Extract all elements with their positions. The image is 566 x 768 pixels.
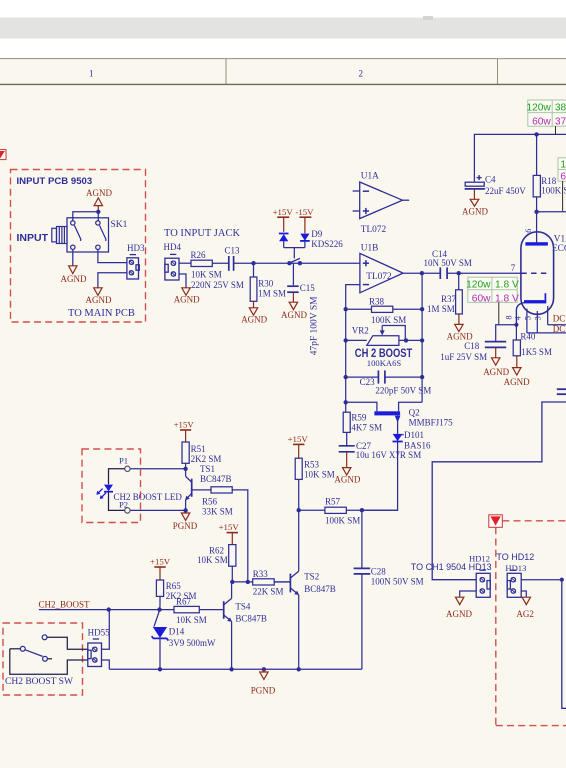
svg-text:TO MAIN PCB: TO MAIN PCB xyxy=(68,308,135,319)
svg-text:10K SM: 10K SM xyxy=(176,615,207,625)
potentiometer VR2 xyxy=(346,325,422,345)
power +15V (for D9) xyxy=(273,207,294,232)
wire feedback right vertical xyxy=(421,273,423,402)
node R65/D14 tap xyxy=(157,607,161,611)
AGND (below C15) xyxy=(281,302,307,320)
resistor R37 xyxy=(427,273,462,324)
svg-text:R59: R59 xyxy=(351,413,367,423)
power +15V (R51) xyxy=(174,420,195,442)
svg-text:D101: D101 xyxy=(404,430,424,440)
AGND (below C27) xyxy=(334,468,360,485)
jack barrel of SK1 xyxy=(52,227,67,244)
svg-text:BC847B: BC847B xyxy=(235,614,267,624)
switch CH2 BOOST SW xyxy=(10,635,88,674)
svg-text:1M SM: 1M SM xyxy=(258,289,286,299)
svg-text:AGND: AGND xyxy=(281,310,307,320)
power +15V (R62) xyxy=(219,522,240,544)
svg-text:+15V: +15V xyxy=(174,420,195,430)
wire HD55 pin1 to CH2_BOOST xyxy=(102,610,110,650)
jack socket SK1 xyxy=(67,218,109,252)
wire SK1 to HD3 xyxy=(98,250,127,263)
svg-text:R67: R67 xyxy=(176,597,192,607)
node grid/R37 xyxy=(457,271,461,275)
power -15V (for D9) xyxy=(295,207,314,234)
svg-text:U1B: U1B xyxy=(361,243,379,253)
measurement table (tube grid voltages) xyxy=(466,277,519,324)
svg-text:VR2: VR2 xyxy=(352,325,369,335)
wire HD13 pin2 to AG2 xyxy=(521,591,526,597)
node cathode junction xyxy=(514,323,518,327)
svg-text:BC847B: BC847B xyxy=(304,584,336,594)
wire node to P2 xyxy=(130,509,186,511)
wire bottom ground rail xyxy=(109,668,362,670)
node TS4 emitter xyxy=(229,667,233,671)
svg-text:+15V: +15V xyxy=(288,434,309,444)
pin P2 xyxy=(119,499,130,513)
svg-text:C13: C13 xyxy=(225,245,241,255)
wire output to HD12 xyxy=(432,402,566,580)
capacitor C14 xyxy=(424,249,472,279)
capacitor C15 xyxy=(287,263,315,302)
wire D101 to R57 right xyxy=(362,442,398,511)
jack switch contact on input wire xyxy=(289,258,300,263)
svg-text:AGND: AGND xyxy=(504,377,530,387)
svg-text:INPUT PCB 9503: INPUT PCB 9503 xyxy=(17,176,93,187)
op-amp U1A xyxy=(353,172,410,236)
svg-text:10K SM: 10K SM xyxy=(304,470,335,480)
svg-text:HD3: HD3 xyxy=(127,243,145,253)
svg-text:100K SM: 100K SM xyxy=(325,516,360,526)
svg-text:60w: 60w xyxy=(472,293,491,304)
svg-text:12: 12 xyxy=(560,160,566,171)
svg-text:R37: R37 xyxy=(441,294,457,304)
svg-text:PGND: PGND xyxy=(173,521,198,531)
svg-text:10N 50V SM: 10N 50V SM xyxy=(424,258,472,268)
svg-text:6: 6 xyxy=(560,171,566,182)
capacitor C28 xyxy=(354,510,424,669)
capacitor C13 xyxy=(225,245,241,270)
svg-text:BC847B: BC847B xyxy=(200,474,232,484)
node R38 left xyxy=(344,307,348,311)
svg-text:8: 8 xyxy=(505,315,514,319)
svg-text:TS1: TS1 xyxy=(200,464,215,474)
resistor R57 xyxy=(299,496,398,525)
connector HD55 xyxy=(88,628,110,667)
power +15V (R53) xyxy=(288,434,309,458)
wire U1B output xyxy=(403,272,440,274)
resistor R30 xyxy=(250,263,286,307)
wire R18 node to right edge xyxy=(537,211,566,213)
svg-text:22K SM: 22K SM xyxy=(253,587,284,597)
node R56 bottom xyxy=(246,580,250,584)
node switch right xyxy=(298,261,302,265)
wire HD12 pin2 to AGND xyxy=(460,591,477,597)
svg-text:4K7 SM: 4K7 SM xyxy=(351,423,382,433)
svg-text:+15V: +15V xyxy=(273,207,294,217)
svg-text:100K SM: 100K SM xyxy=(371,315,406,325)
measurement table (top right, B+ voltages) xyxy=(526,100,566,134)
svg-text:C4: C4 xyxy=(485,175,496,185)
svg-text:120w: 120w xyxy=(526,103,551,114)
measurement table (right edge, R18 node) xyxy=(558,158,566,183)
node R38 right xyxy=(420,307,424,311)
red marker flag top-left xyxy=(0,150,6,160)
wire pin3 to right edge xyxy=(548,306,566,325)
svg-text:R33: R33 xyxy=(253,569,269,579)
svg-text:R38: R38 xyxy=(369,296,385,306)
svg-text:TO INPUT JACK: TO INPUT JACK xyxy=(164,228,240,239)
svg-text:C28: C28 xyxy=(371,566,387,576)
svg-text:TS2: TS2 xyxy=(304,572,319,582)
node R62/R33/TS4 xyxy=(230,580,234,584)
node C28 top xyxy=(360,508,364,512)
wire D9 to signal node xyxy=(284,241,305,259)
diode D101 BAS16 xyxy=(393,430,432,451)
svg-text:CH2 BOOST SW: CH2 BOOST SW xyxy=(5,677,73,687)
svg-text:HD55: HD55 xyxy=(88,628,110,638)
connector HD3 xyxy=(127,243,145,279)
connector HD12 xyxy=(476,570,490,597)
node switch left xyxy=(287,261,291,265)
svg-text:10K SM: 10K SM xyxy=(197,555,228,565)
PGND (bottom rail) xyxy=(251,669,276,695)
svg-text:TL072: TL072 xyxy=(366,272,392,282)
op-amp U1B xyxy=(360,243,403,292)
dashed box CH2 BOOST LED xyxy=(82,449,141,523)
capacitor C27 xyxy=(339,441,422,467)
LED D (CH2 BOOST LED) xyxy=(96,469,124,511)
faint toolbar mark xyxy=(423,16,433,20)
resistor R62 xyxy=(197,545,236,582)
dashed box bottom right xyxy=(496,521,566,726)
svg-text:AGND: AGND xyxy=(86,295,112,305)
connector HD4 xyxy=(164,242,182,280)
connector HD13 xyxy=(507,570,521,597)
svg-text:U1A: U1A xyxy=(361,172,379,182)
wire C13 to U1B input xyxy=(234,262,360,264)
svg-text:2: 2 xyxy=(359,69,364,79)
transistor TS2 BC847B xyxy=(274,510,335,669)
dashed box CH2 BOOST SW xyxy=(3,623,83,695)
svg-text:AGND: AGND xyxy=(446,609,472,619)
pin P1 xyxy=(119,456,130,472)
svg-text:AGND: AGND xyxy=(174,294,200,304)
node R18 bottom xyxy=(534,210,538,214)
svg-text:R40: R40 xyxy=(520,332,536,342)
svg-text:AGND: AGND xyxy=(61,274,87,284)
svg-text:1uF 25V SM: 1uF 25V SM xyxy=(440,352,487,362)
wire node to P1 xyxy=(130,468,186,470)
svg-text:INPUT: INPUT xyxy=(17,232,49,244)
AGND (below SK1 left) xyxy=(61,266,87,284)
svg-text:1: 1 xyxy=(89,69,94,79)
svg-text:1K5 SM: 1K5 SM xyxy=(521,347,552,357)
diode D9 KDS226 (dual) xyxy=(279,229,343,249)
tube pin numbers 8 4 5 3 xyxy=(505,315,543,320)
annotation tick from table to node xyxy=(562,181,564,211)
svg-text:R65: R65 xyxy=(166,581,182,591)
svg-text:47pF 100V SM: 47pF 100V SM xyxy=(309,296,319,355)
svg-text:22uF 450V: 22uF 450V xyxy=(485,186,526,196)
resistor R59 xyxy=(343,402,382,446)
zener diode D14 xyxy=(152,611,216,670)
svg-text:100N 50V SM: 100N 50V SM xyxy=(371,577,424,587)
svg-text:R57: R57 xyxy=(325,496,341,506)
svg-text:ECC8: ECC8 xyxy=(552,244,566,254)
PGND (TS1 emitter) xyxy=(173,513,198,531)
svg-text:R56: R56 xyxy=(202,497,218,507)
resistor R56 xyxy=(202,487,248,582)
AGND AG2 (below HD13) xyxy=(516,597,534,619)
svg-text:1.8 V: 1.8 V xyxy=(495,280,519,291)
svg-text:7: 7 xyxy=(511,263,516,273)
svg-text:D14: D14 xyxy=(169,627,185,637)
resistor R26 xyxy=(191,250,222,280)
svg-text:6: 6 xyxy=(524,229,533,233)
node junction above SK1 xyxy=(96,210,100,214)
node C23 left xyxy=(344,375,348,379)
svg-text:60w: 60w xyxy=(532,116,551,127)
wire HD3 pin2 to AGND xyxy=(98,273,127,288)
svg-text:C15: C15 xyxy=(300,283,316,293)
transistor TS1 BC847B xyxy=(185,464,231,510)
svg-text:AGND: AGND xyxy=(462,207,488,217)
svg-text:33K SM: 33K SM xyxy=(202,506,233,516)
resistor R53 xyxy=(295,458,335,510)
AGND (below R40) xyxy=(504,368,530,388)
svg-text:TL072: TL072 xyxy=(361,225,387,235)
wire right vertical to edge xyxy=(562,580,566,709)
node TS2 emitter xyxy=(297,667,301,671)
node Q2 gate corner xyxy=(344,400,348,404)
svg-text:TO HD12: TO HD12 xyxy=(496,552,534,562)
svg-text:AGND: AGND xyxy=(483,367,509,377)
wire C14 to tube grid xyxy=(447,272,521,274)
node HD55 tap xyxy=(107,607,111,611)
capacitor C18 xyxy=(440,341,506,362)
svg-text:-15V: -15V xyxy=(295,207,314,217)
svg-text:120w: 120w xyxy=(466,280,491,291)
resistor R40 xyxy=(513,325,552,368)
svg-text:MMBFJ175: MMBFJ175 xyxy=(409,417,454,427)
svg-text:CH2_BOOST: CH2_BOOST xyxy=(39,600,91,610)
wire R26 to C13 xyxy=(212,262,229,264)
svg-text:37.9: 37.9 xyxy=(555,116,566,127)
AGND (below HD3 path) xyxy=(86,288,112,305)
svg-text:C23: C23 xyxy=(360,377,376,387)
node VR2 wiper xyxy=(404,338,408,342)
resistor R38 xyxy=(346,296,422,324)
svg-text:PGND: PGND xyxy=(251,685,276,695)
svg-text:HD4: HD4 xyxy=(164,242,182,252)
svg-text:+15V: +15V xyxy=(219,522,240,532)
svg-text:C18: C18 xyxy=(464,341,480,351)
svg-text:AGND: AGND xyxy=(334,474,360,484)
svg-text:R30: R30 xyxy=(258,278,274,288)
svg-text:CH2 BOOST LED: CH2 BOOST LED xyxy=(114,492,183,502)
svg-text:AG2: AG2 xyxy=(516,609,534,619)
svg-text:DC14: DC14 xyxy=(553,324,566,334)
resistor R18 xyxy=(533,134,566,242)
transistor TS4 BC847B xyxy=(224,582,267,669)
svg-text:220pF 50V SM: 220pF 50V SM xyxy=(375,385,431,395)
dashed box INPUT PCB 9503 xyxy=(11,170,146,323)
svg-text:R51: R51 xyxy=(191,444,206,454)
svg-text:220N 25V SM: 220N 25V SM xyxy=(191,280,244,290)
AGND (below HD4) xyxy=(174,288,200,305)
svg-text:P1: P1 xyxy=(119,456,128,466)
svg-text:SK1: SK1 xyxy=(111,220,128,230)
AGND (top of SK1) xyxy=(86,188,112,212)
resistor R67 xyxy=(174,597,223,626)
wire AGND node to SK1 pins xyxy=(73,212,99,221)
svg-text:3V9 500mW: 3V9 500mW xyxy=(169,638,216,648)
capacitor C4 xyxy=(465,134,566,199)
svg-text:100KA6S: 100KA6S xyxy=(367,358,402,368)
resistor R33 xyxy=(232,569,290,596)
svg-text:DC13: DC13 xyxy=(553,314,566,324)
svg-text:AGND: AGND xyxy=(86,188,112,198)
wire HD4 pin2 to AGND xyxy=(179,274,186,288)
AGND (below R37) xyxy=(447,324,473,341)
red marker flag bottom right xyxy=(489,515,503,528)
node D14 bottom xyxy=(158,667,162,671)
svg-text:D9: D9 xyxy=(311,229,322,239)
node R18 top xyxy=(534,132,538,136)
resistor R51 xyxy=(182,442,221,469)
AGND (below R30) xyxy=(241,308,267,325)
svg-text:R26: R26 xyxy=(191,250,207,260)
node R57 left xyxy=(297,508,301,512)
capacitor C23 xyxy=(346,370,432,395)
AGND (below C18) xyxy=(483,358,509,377)
vacuum tube V1A ECC83 xyxy=(516,229,566,325)
svg-text:+15V: +15V xyxy=(150,557,171,567)
node PGND tap xyxy=(262,667,266,671)
wire U1B inverting input feedback xyxy=(346,285,360,403)
power +15V (R65) xyxy=(150,557,171,580)
node R51/LED/TS1 collector xyxy=(183,467,187,471)
svg-text:38.4: 38.4 xyxy=(555,103,566,114)
node HD13 right xyxy=(560,578,564,582)
svg-text:10u 16V X7R SM: 10u 16V X7R SM xyxy=(356,450,422,460)
node R30 tap xyxy=(251,261,255,265)
wire HD4 pin1 to R26 xyxy=(179,262,191,264)
wire HD55 pin2 to ground rail xyxy=(102,660,110,669)
transistor Q2 MMBFJ175 xyxy=(346,402,453,434)
svg-text:5: 5 xyxy=(524,316,533,320)
node C23 right xyxy=(420,375,424,379)
node VR2 right xyxy=(420,338,424,342)
top gray toolbar strip xyxy=(0,18,566,39)
sheet header row borders xyxy=(0,59,566,85)
svg-text:Q2: Q2 xyxy=(409,407,420,417)
svg-text:AGND: AGND xyxy=(241,315,267,325)
svg-text:R62: R62 xyxy=(209,545,224,555)
node TS1 emitter/PGND xyxy=(183,508,187,512)
wire cathode to C18 xyxy=(496,325,517,341)
svg-text:KDS226: KDS226 xyxy=(311,239,343,249)
node VR2 left xyxy=(344,338,348,342)
svg-text:AGND: AGND xyxy=(447,331,473,341)
node U1B output xyxy=(420,271,424,275)
svg-text:10K SM: 10K SM xyxy=(191,270,222,280)
svg-text:TS4: TS4 xyxy=(235,601,251,611)
svg-text:2K2 SM: 2K2 SM xyxy=(191,454,222,464)
wire CH2_BOOST xyxy=(39,609,174,611)
AGND (below HD12) xyxy=(446,597,472,619)
AGND (below C4) xyxy=(462,199,488,216)
svg-text:1M SM: 1M SM xyxy=(427,304,455,314)
svg-text:R53: R53 xyxy=(304,460,320,470)
capacitor (right edge, partial) xyxy=(557,389,566,394)
resistor R65 xyxy=(156,580,196,610)
wire SK1 pin to AGND xyxy=(72,250,74,266)
wire heater pins to right edge xyxy=(527,309,566,333)
svg-text:HD13: HD13 xyxy=(505,563,526,573)
wire HD13 pin1 to right xyxy=(521,579,562,581)
